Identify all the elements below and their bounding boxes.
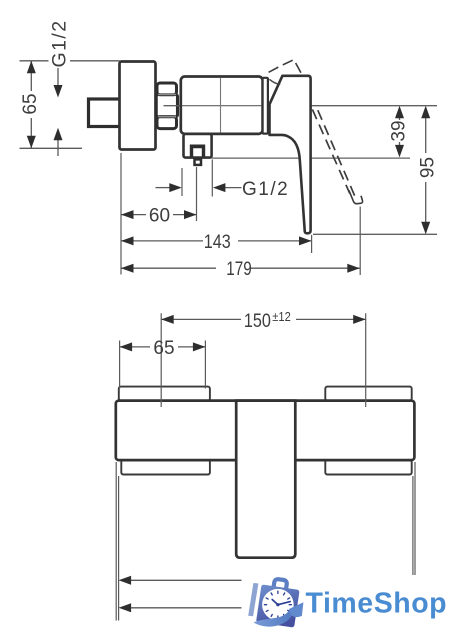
- cartridge ring: [263, 78, 268, 134]
- body bar: [116, 401, 415, 461]
- escutcheon (wall plate, side view): [120, 62, 156, 150]
- bottom-right ext line D: [414, 462, 416, 575]
- right escutcheon bottom cap: [325, 460, 411, 474]
- svg-text:65: 65: [20, 93, 41, 114]
- left ext line for 60/143/179: [120, 153, 122, 275]
- dashed lever ext line: [359, 207, 361, 276]
- dashed lever open position line 2: [318, 110, 355, 197]
- dimension 179: [121, 267, 360, 269]
- mid reference line (39 bottom): [212, 157, 411, 159]
- dimension 65 up arrow: [27, 61, 36, 74]
- outlet ext line center: [196, 167, 198, 221]
- bottom-right ext line C: [412, 476, 414, 575]
- body divider line: [220, 78, 222, 133]
- nut facet gray lines: [158, 94, 176, 116]
- dimension 65 vertical line: [30, 61, 32, 149]
- G1/2 leader down arrow: [57, 68, 59, 86]
- outlet ext line left: [181, 168, 183, 196]
- logo clock hands: [272, 600, 290, 605]
- dashed lever tip cap: [349, 190, 363, 203]
- dimension 95: [425, 118, 427, 222]
- svg-text:65: 65: [153, 338, 174, 359]
- left escutcheon top cap: [119, 387, 210, 401]
- bottom reference line (95 bottom): [313, 233, 437, 235]
- centerline segment inside nut: [164, 105, 181, 107]
- logo clock face: [262, 589, 294, 621]
- dimension 65 bottom: [120, 346, 206, 348]
- handle grip and lever (solid): [270, 76, 311, 234]
- outlet tip: [195, 159, 202, 165]
- svg-text:39: 39: [389, 120, 410, 141]
- center column: [236, 401, 295, 558]
- inlet nipple G1/2: [89, 99, 122, 127]
- dimension 143: [121, 240, 312, 242]
- hex nut bottom cap: [157, 117, 177, 129]
- lever tip ext line: [311, 235, 313, 253]
- svg-text:150: 150: [244, 311, 271, 332]
- G1/2 leader up arrow: [57, 139, 59, 156]
- svg-text:G1/2: G1/2: [242, 179, 289, 200]
- logo bag body: [256, 584, 300, 627]
- outlet block: [184, 134, 212, 158]
- logo clock ticks: [264, 591, 291, 618]
- bottom-left ext line A (bar edge): [115, 462, 117, 621]
- svg-text:60: 60: [149, 206, 170, 227]
- outlet ext line right: [211, 160, 213, 197]
- dashed lever open position line 1: [312, 110, 349, 194]
- svg-text:±12: ±12: [272, 310, 291, 324]
- extension line top-left (escutcheon top edge): [20, 60, 120, 62]
- dimension 60: [121, 214, 197, 216]
- bottom dimension arrow 1: [131, 579, 242, 581]
- left escutcheon bottom cap: [121, 460, 210, 474]
- pivot arc: [269, 79, 280, 84]
- ext lines for 65 dimension: [120, 341, 206, 389]
- bottom dimension arrow 2: [131, 607, 242, 609]
- outlet left arrow leader: [156, 187, 171, 189]
- right escutcheon top cap: [325, 387, 411, 401]
- ext lines for 150 dimension: [161, 313, 366, 407]
- logo swoosh arrowhead: [289, 602, 304, 617]
- svg-text:TimeShop: TimeShop: [306, 588, 448, 620]
- dashed raised grip position: [269, 60, 302, 75]
- svg-text:179: 179: [226, 259, 252, 280]
- svg-text:143: 143: [204, 232, 231, 253]
- valve body: [181, 77, 263, 134]
- hex nut middle: [156, 95, 177, 117]
- dimension 150±12: [161, 318, 366, 320]
- dimension 65 down arrow: [27, 136, 36, 149]
- outlet nut staple: [190, 145, 205, 158]
- svg-text:G1/2: G1/2: [49, 20, 71, 68]
- hex nut top cap: [157, 83, 177, 95]
- extension line bottom-left (escutcheon bottom edge): [20, 147, 83, 149]
- bottom-left ext line B (cap edge): [118, 476, 120, 621]
- G1/2 outlet leader: [224, 187, 242, 189]
- centerline inside body: [182, 105, 262, 107]
- logo bag handle: [273, 579, 287, 590]
- logo swoosh arrow: [254, 611, 293, 627]
- centerline through nut and body: [164, 105, 438, 107]
- logo back flap: [248, 583, 258, 616]
- svg-text:95: 95: [418, 157, 439, 178]
- dimension 39: [399, 118, 401, 145]
